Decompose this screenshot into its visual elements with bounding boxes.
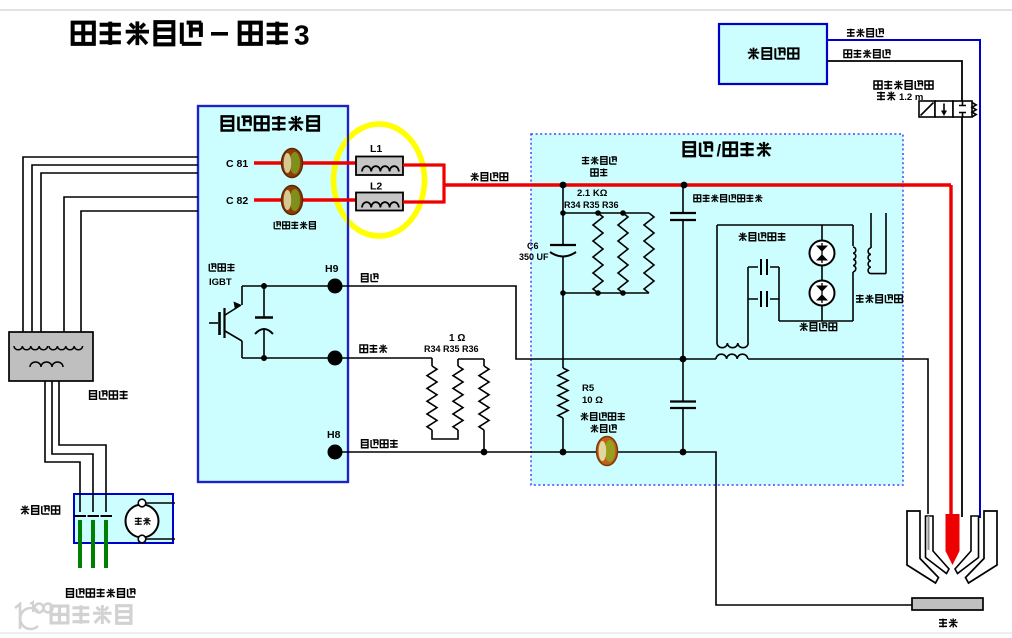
svg-text:C 81: C 81 — [226, 158, 248, 170]
wires transformer to contactor — [45, 381, 106, 512]
svg-text:IGBT: IGBT — [209, 277, 232, 288]
label 高压变压器 — [856, 294, 902, 303]
green AC input wires — [80, 520, 106, 568]
label 试电阻 — [360, 344, 387, 353]
svg-text:H9: H9 — [325, 263, 339, 275]
junction node nozzle line / capacitor branch — [680, 356, 687, 363]
resistor R36 — [479, 366, 489, 430]
label hose 1.2 m — [874, 81, 933, 90]
wire plasma gas — [827, 61, 962, 101]
torch right inner petal — [955, 516, 979, 574]
main contactor 主接触器 — [21, 506, 60, 515]
yellow highlight ellipse — [334, 124, 425, 236]
svg-text:10 Ω: 10 Ω — [582, 395, 603, 406]
svg-text:R5: R5 — [582, 383, 595, 394]
current sensor toroid on C82 — [282, 186, 303, 215]
capacitor (lower) — [682, 359, 684, 401]
coupling transformer upper winding — [717, 343, 748, 348]
svg-text:3: 3 — [294, 20, 310, 51]
svg-text:C 82: C 82 — [226, 195, 248, 207]
label 谐振变压器电容器 — [694, 194, 763, 202]
HV transformer secondary — [870, 213, 872, 248]
I/O board 输入/输出板 — [531, 134, 903, 485]
wire IGBT emitter to pin — [242, 357, 335, 359]
svg-text:H8: H8 — [327, 429, 341, 441]
top divider line — [0, 9, 1012, 11]
svg-text:R34 R35 R36: R34 R35 R36 — [424, 344, 479, 354]
wire nozzle 喷嘴 from H9 — [362, 274, 379, 282]
svg-text:350 UF: 350 UF — [519, 252, 549, 262]
negative supply red bus — [444, 183, 951, 187]
wire work lead from H8 — [335, 452, 912, 605]
AC input wires (5) from transformer to board — [23, 157, 198, 332]
resistor R35 — [458, 358, 484, 360]
watermark logo — [15, 602, 52, 629]
chopper board 斩波器电路板 — [198, 106, 348, 482]
junction node at R36/work lead — [481, 449, 488, 456]
svg-text:C6: C6 — [527, 241, 539, 251]
wire to 1-ohm resistors — [335, 357, 432, 359]
wire IGBT collector to H9 — [242, 285, 335, 287]
label 负极电源 — [471, 172, 508, 181]
label 引导弧 IGBT — [209, 264, 234, 272]
torch right outer petal — [966, 511, 998, 583]
junction on red bus — [560, 182, 567, 189]
red wires L1/L2 to negative supply — [403, 164, 444, 204]
svg-text:2.1 KΩ: 2.1 KΩ — [577, 188, 608, 199]
IGBT Q1 — [209, 286, 242, 358]
electrode (red) — [946, 514, 960, 565]
blocking capacitors 隔直电容器 — [739, 232, 786, 241]
coil 线圈 — [126, 505, 159, 538]
coupling transformer lower winding — [716, 354, 748, 359]
spark gaps 火花间隙 — [821, 225, 823, 321]
main transformer 主变压器 — [9, 332, 93, 381]
label 交流电源输入端 — [67, 589, 135, 598]
resistor R34 — [431, 358, 433, 366]
current sensor toroid on C81 — [282, 149, 303, 178]
wire inside left inner nozzle petal — [928, 516, 930, 550]
svg-text:L1: L1 — [370, 143, 382, 155]
svg-text:R34 R35 R36: R34 R35 R36 — [564, 200, 619, 210]
label 接地线电流 传感器 — [581, 412, 625, 420]
spark circuit top wire — [717, 224, 853, 226]
wire shield gas (blue) — [827, 40, 980, 518]
ground current sensor toroid — [597, 437, 618, 466]
bottom divider line — [0, 632, 1012, 634]
wire C6 node down to R5 — [562, 293, 564, 368]
torch left outer petal — [907, 511, 939, 583]
title 电弧初始化 - 状态 3 — [73, 20, 310, 51]
label shield gas 保护气体 — [847, 28, 884, 37]
label 电源注入 电阻 — [582, 156, 617, 164]
label 工件电源 — [362, 440, 398, 448]
watermark text 大数跨境 — [51, 605, 131, 624]
capacitor (upper, resonant) — [682, 185, 684, 213]
svg-text:/: / — [717, 142, 722, 160]
wire C81 (red) — [254, 161, 356, 164]
svg-text:L2: L2 — [370, 181, 382, 193]
contactor board background — [74, 494, 173, 543]
workpiece 工件 — [912, 598, 983, 610]
label 电流传感器 — [274, 221, 315, 229]
wire C82 (red) — [254, 198, 356, 201]
solenoid valve — [919, 101, 976, 117]
HV transformer primary — [852, 225, 854, 246]
label plasma gas 等离子气体 — [844, 49, 890, 58]
svg-text:1 Ω: 1 Ω — [449, 333, 465, 344]
torch left inner petal — [926, 516, 950, 574]
spark circuit left wire — [716, 225, 718, 343]
pin (middle) — [328, 351, 343, 366]
gas supply box 供气系统 — [719, 24, 827, 84]
contacts — [75, 515, 113, 517]
snubber capacitor — [255, 286, 273, 358]
spark circuit bottom wire — [779, 320, 853, 322]
